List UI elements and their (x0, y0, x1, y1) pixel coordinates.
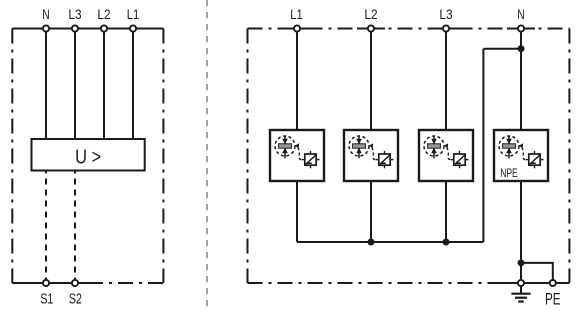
right box left border (dash-dot) (247, 29, 249, 284)
dashed signal wire S2 (74, 171, 76, 284)
terminal PE (550, 280, 556, 286)
wire arrester 1 down (296, 181, 298, 242)
wire L1 down (132, 29, 134, 140)
riser wire to common bus (482, 49, 484, 242)
wire L3 down to arrester 3 (445, 29, 447, 131)
svg-text:L2: L2 (364, 6, 377, 22)
wire PE branch (521, 263, 553, 283)
ground symbol (511, 286, 530, 302)
wire from N node left (483, 48, 521, 50)
left box top border (solid) (12, 28, 163, 30)
terminal L3 (443, 25, 449, 31)
terminal L1 (130, 25, 136, 31)
wire L2 down to arrester 2 (370, 29, 372, 131)
overvoltage relay U> box (32, 139, 145, 171)
wire arrester 3 down (445, 181, 447, 242)
left box bottom border dash-dot part (88, 282, 163, 284)
wire arrester 2 down (370, 181, 372, 242)
dashed signal wire S1 (45, 171, 47, 284)
svg-text:L3: L3 (439, 6, 452, 22)
right box top border (dash-dot) (248, 28, 570, 30)
wire N down to NPE arrester (520, 29, 522, 131)
gray dashed separator line (206, 0, 208, 312)
left box left border (dash-dot) (11, 29, 13, 284)
svg-text:L3: L3 (68, 6, 81, 22)
svg-text:L2: L2 (97, 6, 110, 22)
right box bottom border solid part (502, 282, 569, 284)
svg-text:N: N (42, 6, 49, 22)
solid segments under terminals on top border (283, 28, 311, 30)
wire L2 down (103, 29, 105, 140)
svg-text:L1: L1 (290, 6, 303, 22)
right box bottom border (dash-dot) (248, 282, 503, 284)
left box right border (dash-dot) (162, 29, 164, 284)
terminal L2 (101, 25, 107, 31)
common bus wire (297, 241, 483, 243)
svg-text:NPE: NPE (500, 166, 518, 180)
arrester F3 (L3) box (419, 130, 473, 181)
wire NPE down to PE node (520, 181, 522, 283)
svg-text:S1: S1 (40, 291, 53, 308)
arrester F1 (L1) box (270, 130, 324, 181)
terminal N (43, 25, 49, 31)
svg-text:S2: S2 (69, 291, 82, 308)
junction PE node (518, 259, 525, 266)
terminal earth (518, 280, 524, 286)
left box bottom border solid part (12, 282, 88, 284)
junction N node (518, 45, 525, 52)
svg-text:PE: PE (545, 290, 561, 308)
wire L3 down (74, 29, 76, 140)
svg-text:N: N (517, 6, 524, 22)
terminal S1 (43, 280, 49, 286)
svg-text:L1: L1 (127, 6, 140, 22)
junction bus-L3 (443, 239, 450, 246)
terminal N (518, 25, 524, 31)
terminal L1 (294, 25, 300, 31)
right box right border (dash-dot) (568, 29, 570, 284)
wire N down (45, 29, 47, 140)
terminal L2 (368, 25, 374, 31)
svg-text:U >: U > (75, 145, 101, 168)
arrester NPE box (494, 130, 548, 181)
junction bus-L2 (368, 239, 375, 246)
arrester F2 (L2) box (344, 130, 398, 181)
wire L1 down to arrester 1 (296, 29, 298, 131)
terminal S2 (72, 280, 78, 286)
terminal L3 (72, 25, 78, 31)
